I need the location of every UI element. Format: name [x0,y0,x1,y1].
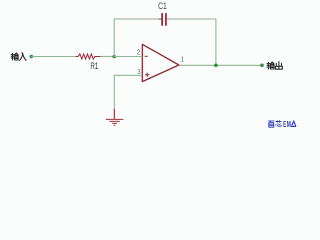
wire op-amp output to output terminal [179,64,262,66]
wire R1 to junction [100,56,114,58]
resistor R1 [76,54,101,59]
ground symbol [106,109,123,125]
svg-text:1: 1 [181,55,184,64]
node: output terminal dot [260,64,264,68]
wire input to R1 [31,56,76,58]
svg-text:M: M [287,120,291,129]
capacitor C1 [159,13,171,26]
net label 输入 [11,53,26,61]
svg-text:R1: R1 [90,61,98,71]
op-amp plus sign [145,73,149,77]
wire pin 3 to ground stem [114,75,142,109]
svg-text:C1: C1 [158,1,167,11]
junction: output feedback node [214,64,218,68]
svg-text:2: 2 [137,49,140,56]
op-amp minus sign [145,55,148,57]
wire top-left to C1 [114,18,161,20]
wire down to output net [215,19,217,65]
op-amp U1 [142,44,179,81]
junction: inverting input node [112,55,116,59]
net label 输出 [267,62,282,69]
wire junction up to feedback [113,19,115,57]
wire C1 to top-right corner [167,18,216,20]
watermark logo 百芯EMA [268,120,281,127]
node: input terminal dot [30,55,34,59]
wire junction to pin 2 [114,56,142,58]
